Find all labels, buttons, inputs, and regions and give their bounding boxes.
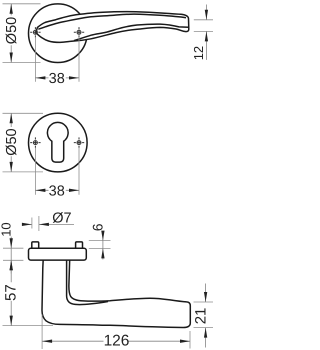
- svg-text:12: 12: [191, 46, 206, 60]
- center-mark cross (middle view right screw hole): [74, 137, 84, 147]
- svg-text:Ø7: Ø7: [52, 210, 71, 226]
- dimension O7 (side view peg): [22, 210, 74, 231]
- dimension 57 (side view height): [3, 260, 54, 325]
- svg-text:126: 126: [104, 333, 130, 350]
- dimension 12 (top view right): [191, 5, 213, 61]
- dimension 126 (side view length): [42, 315, 190, 350]
- rosette circle (top view): [29, 4, 88, 63]
- rosette plate (side view): [29, 248, 87, 260]
- dimension 6 (side view peg height): [89, 223, 111, 259]
- svg-text:6: 6: [90, 223, 106, 231]
- lever blade (top view): [36, 12, 189, 43]
- svg-text:10: 10: [0, 222, 14, 236]
- blade lower twist edge line: [74, 24, 189, 41]
- right screw boss peg (side view): [76, 242, 83, 248]
- escutcheon circle (middle view): [29, 113, 88, 172]
- dimension 38 (top view): [35, 37, 79, 87]
- center-mark cross (top view left screw hole): [30, 27, 40, 37]
- left screw boss peg (side view): [32, 242, 39, 248]
- dimension 38 (middle view): [35, 148, 79, 200]
- dimension O50 (top view): [3, 4, 41, 63]
- dimension 21 (side view lever end thickness): [193, 284, 213, 348]
- handle neck + grip (side view): [42, 253, 190, 328]
- svg-text:38: 38: [49, 71, 65, 87]
- euro profile cylinder hole: [47, 122, 68, 162]
- blade upper twist edge line: [38, 14, 186, 29]
- center-mark cross (middle view left screw hole): [30, 137, 40, 147]
- dimension O50 (middle view): [3, 113, 44, 172]
- svg-text:57: 57: [3, 284, 20, 301]
- svg-text:38: 38: [49, 183, 65, 199]
- svg-text:21: 21: [193, 308, 210, 325]
- svg-text:Ø50: Ø50: [4, 128, 20, 155]
- svg-text:Ø50: Ø50: [4, 17, 20, 44]
- center-mark cross (top view right screw hole): [74, 27, 84, 37]
- dimension 10 (side view plate height): [0, 222, 23, 273]
